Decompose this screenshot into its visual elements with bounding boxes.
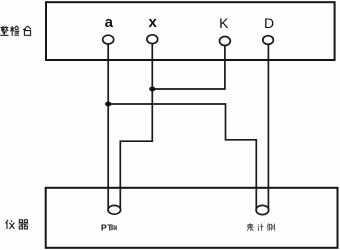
svg-text:D: D [264,15,274,31]
svg-text:x: x [149,14,158,31]
svg-text:a: a [105,14,114,31]
svg-text:K: K [219,15,229,31]
